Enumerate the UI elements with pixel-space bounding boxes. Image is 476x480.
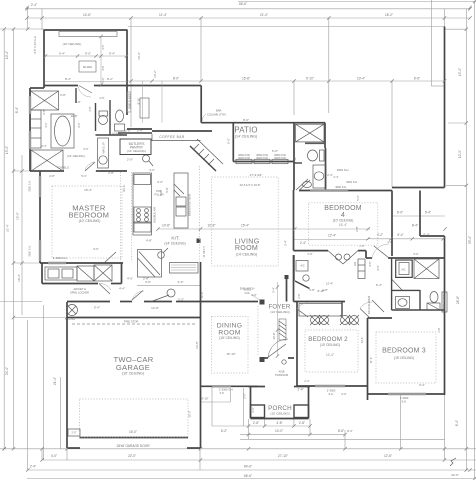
bedroom3 ceiling bbox=[376, 332, 436, 383]
svg-text:11'-4": 11'-4" bbox=[159, 13, 167, 17]
porch bottom wall bbox=[251, 418, 309, 420]
left vertical dim lines bbox=[3, 29, 5, 449]
pantry door circle bbox=[143, 155, 150, 162]
svg-text:64'-6": 64'-6" bbox=[244, 465, 252, 469]
svg-text:4'-6": 4'-6" bbox=[101, 65, 105, 70]
master windows left bbox=[39, 176, 41, 197]
upper mid dim line bbox=[128, 80, 445, 82]
bedroom4 right wall bbox=[391, 191, 393, 257]
bedroom2/3 divider wall bbox=[367, 318, 369, 400]
svg-text:2'-8": 2'-8" bbox=[96, 170, 101, 173]
bath nook wall bbox=[75, 88, 77, 103]
dining ceiling bbox=[212, 317, 249, 374]
garage corner box bbox=[68, 429, 456, 466]
svg-text:8'-0": 8'-0" bbox=[243, 118, 249, 122]
wing door leaf bbox=[79, 86, 92, 94]
patio top wall bbox=[201, 122, 325, 124]
porch posts thick bbox=[251, 405, 265, 418]
svg-text:5'-4": 5'-4" bbox=[94, 306, 100, 310]
vanity column bbox=[98, 138, 109, 168]
coffee bar counter front bbox=[152, 140, 201, 142]
garage right wall bbox=[200, 262, 202, 448]
svg-text:3060 S.H.: 3060 S.H. bbox=[335, 185, 347, 189]
svg-text:4'-0": 4'-0" bbox=[368, 261, 372, 267]
bath column right wall bbox=[324, 123, 326, 148]
tire stop dashed line bbox=[72, 323, 195, 325]
svg-text:12'-4": 12'-4" bbox=[326, 282, 333, 286]
foyer vertical dim line bbox=[277, 282, 279, 356]
range 6 burners bbox=[134, 207, 151, 223]
wing left wall bbox=[43, 30, 45, 88]
svg-text:BAR: BAR bbox=[216, 109, 221, 113]
linen2 bbox=[140, 98, 149, 118]
svg-text:TOWELS: TOWELS bbox=[57, 166, 69, 170]
svg-text:10'-4": 10'-4" bbox=[357, 77, 365, 81]
wing vert dim line bbox=[100, 37, 102, 86]
svg-text:S.H.: S.H. bbox=[328, 392, 333, 396]
svg-text:2'-3060: 2'-3060 bbox=[327, 389, 336, 393]
svg-text:2'-4": 2'-4" bbox=[304, 379, 309, 383]
wing to bath door bbox=[78, 86, 91, 97]
svg-text:TRANSOM: TRANSOM bbox=[275, 373, 288, 377]
bath col bottom wall bbox=[294, 162, 302, 164]
top roof line bbox=[128, 26, 445, 28]
svg-text:JACKET &: JACKET & bbox=[73, 287, 86, 291]
svg-text:(10' CEILING): (10' CEILING) bbox=[79, 219, 101, 223]
svg-text:(15' CEILING): (15' CEILING) bbox=[219, 336, 240, 340]
svg-text:(15' CEILING): (15' CEILING) bbox=[270, 412, 289, 416]
svg-text:2'-2": 2'-2" bbox=[178, 297, 184, 301]
svg-text:GARAGE: GARAGE bbox=[116, 363, 150, 372]
wc walls bbox=[95, 103, 97, 131]
svg-text:6'-4": 6'-4" bbox=[419, 383, 425, 387]
svg-text:24'-4": 24'-4" bbox=[5, 367, 9, 375]
svg-text:5'-0": 5'-0" bbox=[84, 148, 89, 151]
svg-text:2'-8": 2'-8" bbox=[89, 106, 92, 111]
svg-text:5'-0": 5'-0" bbox=[356, 195, 360, 201]
bed4 window bbox=[310, 189, 348, 191]
svg-text:4'-0": 4'-0" bbox=[51, 454, 57, 458]
note box bbox=[170, 263, 199, 274]
svg-text:3020 FXD: 3020 FXD bbox=[238, 156, 250, 160]
svg-text:15'-0": 15'-0" bbox=[16, 212, 20, 220]
porch dim lines bbox=[212, 425, 310, 427]
svg-text:26'-8": 26'-8" bbox=[456, 296, 460, 304]
island box bbox=[79, 61, 96, 72]
garage bottom wall bbox=[67, 447, 80, 449]
svg-text:2'-0": 2'-0" bbox=[127, 158, 133, 162]
svg-text:13'-4": 13'-4" bbox=[5, 146, 9, 154]
hall south wall (bed wing top east) bbox=[366, 257, 372, 259]
pantry shelf box bbox=[138, 250, 162, 278]
svg-text:4'-0": 4'-0" bbox=[157, 180, 163, 184]
svg-text:4'-0": 4'-0" bbox=[178, 280, 184, 284]
linen column bbox=[31, 110, 42, 148]
powder toilet + angled wall bbox=[303, 275, 309, 281]
her shower X box bbox=[31, 150, 63, 171]
hall double doors bbox=[328, 251, 343, 264]
svg-text:DOUBLE AIR: DOUBLE AIR bbox=[153, 207, 157, 223]
tub bbox=[51, 114, 74, 148]
butlers pantry top wall bbox=[127, 128, 152, 130]
svg-text:BREAKFAST BAR: BREAKFAST BAR bbox=[188, 194, 192, 216]
laundry left wall bbox=[41, 263, 43, 284]
svg-text:2'-4": 2'-4" bbox=[300, 241, 306, 245]
entry door bbox=[267, 344, 286, 358]
svg-text:8'-4": 8'-4" bbox=[15, 107, 19, 113]
svg-text:6'-4": 6'-4" bbox=[376, 283, 382, 287]
svg-text:(14' CEILING): (14' CEILING) bbox=[236, 253, 257, 257]
svg-text:6'-0": 6'-0" bbox=[341, 392, 346, 396]
svg-text:6'-0": 6'-0" bbox=[397, 211, 403, 215]
svg-text:10'-8": 10'-8" bbox=[272, 332, 276, 339]
svg-text:5'-4": 5'-4" bbox=[272, 287, 276, 293]
svg-text:ROOM: ROOM bbox=[235, 244, 258, 252]
kitchen/patio west wall bbox=[200, 86, 202, 123]
svg-text:33'-4": 33'-4" bbox=[468, 236, 472, 244]
svg-text:(10' CEILING): (10' CEILING) bbox=[63, 42, 82, 46]
dishwasher diagonal bbox=[174, 184, 184, 194]
living room ceiling bbox=[212, 177, 279, 266]
dining top wall bbox=[180, 301, 258, 303]
coffee bar top wall bbox=[152, 130, 212, 132]
svg-text:5'-0": 5'-0" bbox=[413, 252, 418, 256]
svg-text:14'-6": 14'-6" bbox=[83, 13, 91, 17]
powder room A/C closet bbox=[296, 261, 308, 272]
closet rods bed2 bbox=[299, 304, 342, 317]
colonnade dashed line bbox=[257, 306, 259, 356]
svg-text:2'-8": 2'-8" bbox=[387, 240, 392, 244]
svg-text:13'-4": 13'-4" bbox=[360, 337, 364, 344]
kitchen left counter bbox=[133, 173, 152, 235]
svg-text:PATIO: PATIO bbox=[234, 125, 257, 134]
svg-text:3068 SLIDER: 3068 SLIDER bbox=[127, 93, 131, 109]
extension lines bbox=[0, 28, 44, 30]
dining colonnade posts bbox=[260, 300, 265, 305]
svg-text:BEDROOM 2: BEDROOM 2 bbox=[308, 336, 348, 343]
svg-text:6'-6": 6'-6" bbox=[272, 149, 278, 153]
top dim line 1 bbox=[238, 1, 476, 3]
foyer/porch south wall bbox=[260, 357, 268, 359]
svg-text:5'-4": 5'-4" bbox=[425, 211, 431, 215]
hall door leaf bbox=[132, 291, 143, 301]
svg-text:6'-0": 6'-0" bbox=[93, 247, 99, 251]
pantry door circle bbox=[158, 252, 165, 259]
kitchen ceiling dotted line bbox=[199, 166, 201, 262]
svg-text:2'-8": 2'-8" bbox=[355, 226, 359, 232]
svg-text:W.I.C.: W.I.C. bbox=[122, 184, 126, 192]
porch left post wall bbox=[250, 387, 252, 419]
svg-text:12'-8": 12'-8" bbox=[70, 114, 77, 118]
bed3 entry door bbox=[372, 300, 384, 312]
svg-text:16'-8": 16'-8" bbox=[200, 291, 204, 298]
svg-text:3063 S.H.: 3063 S.H. bbox=[337, 168, 350, 172]
svg-text:2'-8": 2'-8" bbox=[437, 327, 441, 332]
svg-text:3050 S.H.: 3050 S.H. bbox=[29, 245, 32, 256]
garage top wall bbox=[67, 317, 200, 319]
svg-text:4019 SLIDER: 4019 SLIDER bbox=[367, 295, 371, 314]
wing niche header bbox=[59, 32, 117, 37]
wing dim line bbox=[45, 55, 127, 57]
svg-text:5'-4": 5'-4" bbox=[81, 174, 87, 178]
svg-text:3068 SLIDER: 3068 SLIDER bbox=[443, 294, 446, 309]
hall south wall (bed wing top west) bbox=[294, 250, 329, 252]
bed3 window bbox=[388, 393, 426, 395]
svg-text:32'-0": 32'-0" bbox=[451, 473, 459, 477]
svg-text:COLUMN (TYP.): COLUMN (TYP.) bbox=[207, 113, 226, 117]
svg-text:6'-4": 6'-4" bbox=[423, 233, 429, 237]
patio left wall bbox=[232, 123, 234, 162]
wing bottom wall segments bbox=[44, 85, 78, 87]
svg-text:5'-4": 5'-4" bbox=[284, 240, 288, 246]
svg-text:BEDROOM: BEDROOM bbox=[324, 205, 362, 212]
hall wall east bbox=[420, 235, 445, 237]
garage door clearance bbox=[80, 399, 189, 437]
svg-text:22'-0": 22'-0" bbox=[128, 454, 136, 458]
svg-text:3'-0": 3'-0" bbox=[149, 168, 155, 172]
svg-text:2'-8": 2'-8" bbox=[108, 171, 114, 175]
svg-text:9'-10": 9'-10" bbox=[306, 77, 314, 81]
svg-text:2'-4": 2'-4" bbox=[297, 387, 303, 391]
svg-text:(14' CEILING): (14' CEILING) bbox=[270, 310, 289, 314]
bed4 door leaf bbox=[299, 180, 310, 191]
svg-text:2'-3060 S.H.: 2'-3060 S.H. bbox=[53, 256, 68, 260]
bath top jog wall bbox=[30, 87, 44, 89]
svg-text:2'-0": 2'-0" bbox=[251, 407, 255, 413]
bed2 window bbox=[315, 385, 345, 387]
fridge bbox=[134, 175, 151, 185]
hall closet shelves bbox=[358, 259, 365, 279]
svg-text:10'-1": 10'-1" bbox=[458, 150, 462, 158]
svg-text:3063 S.H.: 3063 S.H. bbox=[346, 180, 358, 184]
svg-text:9'-4": 9'-4" bbox=[59, 52, 65, 56]
shower4 bbox=[296, 124, 325, 142]
svg-text:3'-0": 3'-0" bbox=[101, 77, 105, 82]
svg-text:8'-4": 8'-4" bbox=[347, 429, 353, 433]
svg-text:(14' CEILING): (14' CEILING) bbox=[235, 134, 257, 138]
svg-text:5'-8": 5'-8" bbox=[165, 187, 169, 192]
svg-text:2'-0": 2'-0" bbox=[243, 393, 247, 399]
svg-text:21'-4": 21'-4" bbox=[53, 377, 57, 385]
his shower X box bbox=[31, 91, 59, 110]
wc toilet bbox=[99, 116, 108, 125]
svg-text:2'-8": 2'-8" bbox=[100, 97, 105, 100]
master bedroom ceiling bbox=[52, 186, 122, 258]
svg-text:2'-8": 2'-8" bbox=[253, 421, 259, 425]
bath left wall bbox=[29, 88, 31, 171]
right vertical dim lines bbox=[465, 9, 467, 470]
svg-text:10'-8": 10'-8" bbox=[162, 224, 170, 228]
svg-text:(15' CEILING): (15' CEILING) bbox=[394, 356, 414, 360]
garage door bbox=[80, 437, 189, 439]
svg-text:8'-8": 8'-8" bbox=[338, 429, 344, 433]
svg-text:COL.: COL. bbox=[244, 291, 250, 295]
svg-text:(10' CEILING): (10' CEILING) bbox=[122, 372, 144, 376]
svg-text:66'-6": 66'-6" bbox=[239, 2, 247, 6]
svg-text:15'-10": 15'-10" bbox=[226, 352, 235, 356]
laundry door leaf bbox=[99, 284, 110, 295]
master bedroom bottom wall bbox=[40, 262, 123, 264]
hall ext lines bbox=[141, 81, 143, 123]
svg-text:12'-4": 12'-4" bbox=[326, 353, 334, 357]
hall bottom wall bbox=[67, 301, 110, 303]
sink3 bbox=[396, 297, 410, 309]
svg-text:8'-0": 8'-0" bbox=[173, 77, 179, 81]
bath/bedroom divider wall bbox=[30, 170, 64, 172]
svg-text:S.H.: S.H. bbox=[220, 392, 225, 395]
linen east wall bbox=[442, 292, 447, 312]
bedroom3 bottom wall bbox=[368, 393, 445, 395]
east AC closet box bbox=[396, 260, 413, 277]
hall north wall bbox=[127, 85, 201, 87]
bedroom2 left wall bbox=[296, 302, 298, 387]
bath west windows bbox=[29, 96, 31, 114]
svg-text:9'-4": 9'-4" bbox=[109, 52, 115, 56]
svg-text:6'-8": 6'-8" bbox=[60, 93, 66, 97]
svg-text:2'-0": 2'-0" bbox=[72, 432, 77, 435]
entry hatch strip bbox=[279, 321, 286, 326]
svg-text:8'-4": 8'-4" bbox=[455, 420, 459, 426]
toilet3 bbox=[430, 292, 438, 303]
slider window bbox=[127, 92, 131, 112]
svg-text:TIRE STOP: TIRE STOP bbox=[124, 320, 139, 324]
master bedroom left wall bbox=[39, 171, 41, 263]
house right wall bbox=[444, 27, 446, 188]
top dim line 3 bbox=[27, 17, 470, 19]
wing top-left: top wall bbox=[44, 29, 128, 31]
kitchen top wall bbox=[118, 132, 152, 134]
svg-text:MAKE UP: MAKE UP bbox=[103, 142, 106, 154]
svg-text:2'-8": 2'-8" bbox=[359, 244, 364, 248]
svg-text:6'-0": 6'-0" bbox=[78, 122, 81, 127]
svg-text:5'-10": 5'-10" bbox=[201, 397, 208, 401]
dining window bbox=[212, 385, 231, 387]
island breakfast bar bbox=[174, 173, 188, 228]
top extension lines bbox=[130, 18, 132, 127]
svg-text:2'-8": 2'-8" bbox=[299, 421, 305, 425]
svg-text:10'-4": 10'-4" bbox=[137, 52, 141, 60]
vanity4 bbox=[313, 165, 326, 188]
svg-text:4'-8": 4'-8" bbox=[146, 239, 152, 243]
svg-text:21'-4": 21'-4" bbox=[260, 13, 268, 17]
kitchen corner post bbox=[197, 239, 201, 244]
svg-text:8'-10": 8'-10" bbox=[317, 289, 324, 293]
svg-text:15'-4": 15'-4" bbox=[458, 68, 462, 76]
kitchen west dotted lines bbox=[120, 172, 122, 262]
svg-text:6'-0": 6'-0" bbox=[227, 138, 231, 144]
svg-text:3'-0": 3'-0" bbox=[307, 252, 312, 256]
svg-text:15'-4": 15'-4" bbox=[241, 224, 249, 228]
oven bbox=[134, 222, 151, 232]
bottom dim lines bbox=[5, 448, 476, 450]
mid dim line (living) bbox=[158, 228, 370, 230]
svg-text:POT: POT bbox=[156, 189, 162, 193]
svg-text:11'-0": 11'-0" bbox=[369, 357, 373, 363]
svg-text:3050 S.H.: 3050 S.H. bbox=[29, 180, 32, 191]
svg-text:(14' CEILING): (14' CEILING) bbox=[127, 149, 146, 153]
bed3 closet walls bbox=[419, 290, 421, 310]
garage left wall bbox=[66, 302, 68, 448]
svg-text:12'-4": 12'-4" bbox=[328, 233, 336, 237]
svg-text:10'-4": 10'-4" bbox=[5, 51, 9, 59]
svg-text:21'-4": 21'-4" bbox=[6, 224, 10, 232]
porch top walls bbox=[249, 386, 266, 388]
svg-text:2'-6": 2'-6" bbox=[125, 129, 131, 133]
svg-text:DINING: DINING bbox=[217, 323, 243, 330]
svg-text:(14' CEILING): (14' CEILING) bbox=[67, 154, 85, 158]
svg-text:4'-8": 4'-8" bbox=[276, 421, 282, 425]
svg-text:5' CLNG: 5' CLNG bbox=[65, 317, 75, 321]
svg-text:2'-4": 2'-4" bbox=[333, 175, 338, 179]
bedroom3 top walls bbox=[368, 317, 393, 319]
svg-text:2'-4": 2'-4" bbox=[31, 3, 37, 7]
svg-text:6'-6": 6'-6" bbox=[414, 77, 420, 81]
svg-text:18'-2": 18'-2" bbox=[385, 13, 393, 17]
rotated side dimension texts bbox=[5, 51, 472, 426]
butlers pantry box bbox=[120, 139, 151, 155]
svg-text:15'-8": 15'-8" bbox=[242, 77, 250, 81]
svg-text:BEDROOM 3: BEDROOM 3 bbox=[382, 348, 426, 355]
svg-text:27'-9 3/4": 27'-9 3/4" bbox=[250, 173, 263, 177]
second toilet bbox=[116, 110, 124, 122]
washer dryer bbox=[77, 266, 94, 281]
svg-text:A/C: A/C bbox=[401, 268, 405, 272]
svg-text:3020 FXD: 3020 FXD bbox=[256, 156, 268, 160]
svg-text:4'-0": 4'-0" bbox=[376, 265, 380, 271]
svg-text:2'-3060: 2'-3060 bbox=[400, 396, 409, 400]
svg-text:16'-0": 16'-0" bbox=[129, 430, 137, 434]
door4 leaf bbox=[296, 179, 308, 190]
pedestal sink4 bbox=[303, 182, 312, 188]
porch right post wall bbox=[308, 387, 310, 419]
svg-text:COFFEE BAR: COFFEE BAR bbox=[159, 135, 185, 139]
laundry counter bbox=[45, 267, 77, 280]
svg-text:4'-4": 4'-4" bbox=[119, 287, 125, 291]
top dim line 2 bbox=[27, 8, 470, 10]
laundry south wall bbox=[42, 283, 98, 285]
bath entry door leaf bbox=[85, 162, 95, 171]
svg-text:6'-4": 6'-4" bbox=[42, 145, 47, 148]
svg-text:8'-4": 8'-4" bbox=[412, 224, 418, 228]
bed2 entry door bbox=[297, 309, 308, 317]
living windows bbox=[236, 159, 252, 163]
laundry right wall bbox=[121, 263, 123, 284]
svg-text:8'-4": 8'-4" bbox=[65, 77, 71, 81]
bath column left wall bbox=[293, 123, 295, 190]
svg-text:2'-8": 2'-8" bbox=[49, 174, 55, 178]
svg-text:(10' CEILING): (10' CEILING) bbox=[320, 343, 340, 347]
svg-text:66'-6": 66'-6" bbox=[244, 474, 252, 478]
svg-text:SPML LOCKER: SPML LOCKER bbox=[70, 291, 89, 295]
svg-text:FILLER: FILLER bbox=[154, 193, 163, 197]
svg-text:4'-6": 4'-6" bbox=[145, 280, 151, 284]
bar column leader bbox=[202, 114, 206, 121]
dining bottom wall bbox=[201, 385, 259, 387]
bedroom2 ceiling bbox=[305, 330, 358, 372]
living room top wall / window wall bbox=[233, 161, 294, 163]
svg-text:6'-8": 6'-8" bbox=[309, 288, 315, 292]
svg-text:8'-2": 8'-2" bbox=[107, 77, 113, 81]
10x10 col leader bbox=[252, 295, 260, 300]
svg-text:2'-4": 2'-4" bbox=[30, 465, 36, 469]
corner pantry diagonal bbox=[190, 146, 216, 171]
svg-text:2'-4": 2'-4" bbox=[137, 129, 143, 133]
svg-text:14'-8": 14'-8" bbox=[151, 306, 159, 310]
svg-text:11 7/8 TJI: 11 7/8 TJI bbox=[203, 246, 206, 257]
svg-text:10'-4": 10'-4" bbox=[17, 274, 21, 282]
svg-text:5'-4": 5'-4" bbox=[397, 233, 403, 237]
bedroom4 top wall bbox=[299, 190, 392, 192]
